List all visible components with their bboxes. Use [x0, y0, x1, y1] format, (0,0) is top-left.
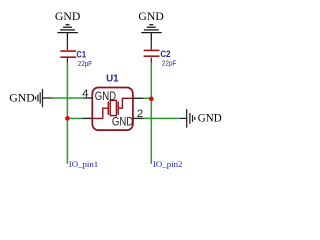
svg-text:IO_pin1: IO_pin1	[69, 159, 98, 169]
label U1	[106, 73, 119, 84]
svg-text:GND: GND	[95, 91, 116, 103]
capacitor C1	[60, 40, 76, 63]
svg-text:GND: GND	[138, 11, 163, 23]
svg-text:2: 2	[137, 108, 143, 120]
net label IO_pin2	[153, 159, 182, 169]
wire (right vertical net)	[150, 63, 152, 164]
power port GND (top right)	[138, 11, 163, 23]
svg-text:GND: GND	[55, 11, 80, 23]
pin 2 (right bottom pin line)	[133, 117, 144, 119]
svg-text:IO_pin2: IO_pin2	[153, 159, 182, 169]
svg-text:GND: GND	[198, 112, 222, 124]
pin (right top crystal pin line)	[133, 97, 144, 99]
label 22pF (C2 value)	[162, 59, 177, 68]
ground earth symbol (left side)	[36, 89, 53, 107]
crystal glyph inside U1	[92, 98, 133, 118]
svg-text:U1: U1	[106, 73, 119, 84]
ground earth symbol (top left)	[57, 25, 78, 41]
junction (left)	[65, 116, 70, 121]
wire (right top branch to junction)	[144, 97, 152, 99]
svg-text:22pF: 22pF	[162, 59, 177, 68]
power port GND (top left)	[55, 11, 80, 23]
pin number 4	[82, 88, 88, 100]
svg-text:GND: GND	[112, 117, 133, 129]
net label IO_pin1	[69, 159, 98, 169]
power port GND (left side)	[9, 93, 34, 105]
pin 4 (left top pin line)	[83, 97, 92, 99]
crystal U1 body	[92, 88, 133, 131]
pin number 2	[137, 108, 143, 120]
junction (right)	[149, 97, 154, 102]
pin (left bottom crystal pin line)	[82, 117, 92, 119]
label C1	[76, 49, 86, 59]
svg-text:4: 4	[82, 88, 88, 100]
svg-text:C2: C2	[160, 49, 170, 59]
ground earth symbol (top right)	[141, 25, 162, 41]
svg-text:C1: C1	[76, 49, 86, 59]
wire (left bottom branch to junction)	[67, 117, 82, 119]
wire (right horizontal to right GND)	[144, 117, 180, 119]
label C2	[160, 49, 170, 59]
svg-text:22pF: 22pF	[78, 59, 93, 68]
pin name GND (pin 2, inside bottom-right)	[112, 117, 133, 129]
pin name GND (pin 4, inside top-left)	[95, 91, 116, 103]
label 22pF (C1 value)	[78, 59, 93, 68]
svg-text:GND: GND	[9, 93, 34, 105]
power port GND (right side)	[198, 112, 222, 124]
wire (left horizontal to pin 4)	[53, 97, 84, 99]
wire (left vertical net)	[66, 63, 68, 164]
capacitor C2	[144, 40, 160, 63]
ground earth symbol (right side)	[180, 109, 195, 128]
